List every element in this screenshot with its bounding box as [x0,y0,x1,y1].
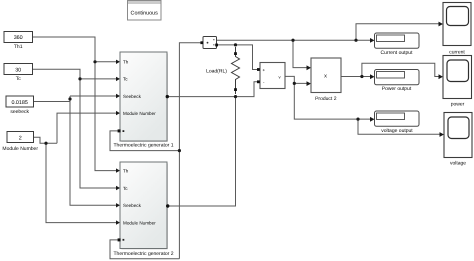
junction load bottom node [234,95,237,98]
subsystem Thermoelectric generator 1 [113,52,173,149]
junction load top node [234,43,237,46]
arrowhead into Current output display [370,38,375,43]
junction voltage signal to scope [356,118,359,121]
svg-text:Thermoelectric generator 2: Thermoelectric generator 2 [113,251,173,257]
wire load top to voltage measurement plus [236,45,258,70]
wire load bottom to voltage measurement minus [236,82,258,97]
junction seebeck net [68,97,71,100]
port conn of generator 1 [118,129,121,132]
arrowhead generator 2 Th input [116,168,120,172]
scope current [443,3,471,56]
junction current signal to scope [354,39,357,42]
arrowhead generator 1 Th input [116,60,120,64]
svg-text:Continuous: Continuous [131,11,159,17]
svg-text:Module Number: Module Number [2,146,38,152]
wire gen1 conn port feedback [110,131,179,151]
arrowhead generator 1 Tc input [116,77,120,81]
svg-text:Thermoelectric generator 1: Thermoelectric generator 1 [113,143,173,149]
arrowhead generator 2 Module Number input [116,220,120,224]
svg-text:Power output: Power output [382,86,412,92]
constant seebeck [6,96,34,115]
arrowhead into voltage scope [440,132,445,137]
svg-text:Load(RL): Load(RL) [206,68,227,74]
svg-text:+: + [263,68,266,73]
svg-text:Seebeck: Seebeck [123,94,142,99]
svg-text:current: current [449,49,465,55]
port minus of voltage measurement [257,80,260,83]
wire voltage measurement output [286,76,308,83]
constant Module Number [2,132,38,152]
wire Tc junction down to gen2 Tc input [80,79,117,188]
wire conn net to gen2 conn port [110,240,179,259]
arrowhead generator 2 Seebeck input [116,203,120,207]
svg-text:Tc: Tc [123,186,128,191]
svg-text:0.0185: 0.0185 [11,100,28,106]
port top of load resistor [234,52,237,55]
svg-text:Th: Th [123,168,129,173]
wire seebeck constant to junction [34,96,71,102]
gen1 output port dot [166,95,169,98]
svg-text:Module Number: Module Number [123,220,156,225]
arrowhead generator 2 Tc input [116,186,120,190]
junction conn net [178,149,181,152]
wire conn net vertical [179,43,201,259]
scope power [443,56,472,108]
junction current signal to Product 2 [291,39,294,42]
wire Th1 junction down to gen2 Th input [95,62,117,171]
svg-text:Th1: Th1 [14,44,23,50]
wire Module junction down to gen2 Module Number input [46,143,117,222]
product Product 2 [311,58,341,102]
wire gen2 output up to load bottom node [168,97,236,206]
junction Module Number net [44,142,47,145]
wire current signal branch to current scope [356,24,440,40]
wire seebeck junction to gen1 Seebeck input [70,95,117,97]
port plus of voltage measurement [257,68,260,71]
port bottom of load resistor [234,88,237,91]
svg-text:360: 360 [14,35,23,41]
svg-text:Current output: Current output [381,50,414,56]
port plus of current measurement [200,41,203,44]
arrowhead into Product 2 input 1 [307,65,312,70]
junction power signal to scope [360,75,363,78]
subsystem Thermoelectric generator 2 [113,162,173,257]
gen2 output port dot [166,204,169,207]
wire current signal to Current output display [217,39,372,41]
wire seebeck junction down to gen2 Seebeck input [70,102,117,206]
display Power output [375,70,420,92]
scope voltage [444,113,472,167]
powergui Continuous [128,1,162,21]
svg-text:Tc: Tc [123,77,128,82]
junction voltage signal to Product 2 [293,82,296,85]
display Current output [375,33,420,56]
svg-text:Product 2: Product 2 [315,96,337,102]
svg-text:seebeck: seebeck [10,109,29,115]
svg-text:x: x [324,74,327,80]
svg-text:Seebeck: Seebeck [123,203,142,208]
wire power signal branch to power scope [362,63,440,76]
wire Product 2 output to Power output display [342,76,372,78]
wire voltage signal branch to voltage scope [358,119,441,134]
svg-text:30: 30 [15,67,21,73]
svg-text:power: power [451,101,465,107]
arrowhead into Product 2 input 2 [307,81,312,86]
arrowhead generator 1 Seebeck input [116,94,120,98]
constant Th1 [4,32,33,50]
constant Tc [4,64,33,83]
port minus of current measurement [215,44,218,47]
wire Module junction up to gen1 Module Number input [57,113,117,143]
svg-text:2: 2 [19,135,22,141]
arrowhead into Power output display [370,74,375,79]
load resistor RL [232,47,240,94]
svg-text:voltage output: voltage output [381,128,413,134]
wire gen1 output to load bottom [168,96,236,98]
wire Tc constant to junction [33,69,81,79]
junction Tc net [78,77,81,80]
arrowhead into power scope [439,74,444,79]
arrowhead generator 1 Module Number input [116,111,120,115]
svg-text:Th: Th [123,60,129,65]
junction Th1 net [93,60,96,63]
arrowhead into voltage output display [370,117,375,122]
arrowhead into current scope [439,22,444,27]
wire Tc junction to gen1 Tc input [80,78,117,80]
port conn of generator 2 [118,238,121,241]
svg-text:Tc: Tc [16,76,22,82]
wire Module Number constant to junction [34,137,58,143]
wire Th1 junction to gen1 Th input [95,61,117,63]
wire current signal branch to Product 2 input 1 [293,40,308,67]
wire voltage signal down to voltage output display [294,83,371,119]
wire current measurement out to load top [217,44,236,46]
voltage measurement block [260,63,285,89]
current measurement block [203,37,217,49]
display voltage output [375,111,420,134]
svg-text:voltage: voltage [450,161,466,167]
svg-text:Module Number: Module Number [123,111,156,116]
wire Th1 constant to junction [33,37,96,62]
